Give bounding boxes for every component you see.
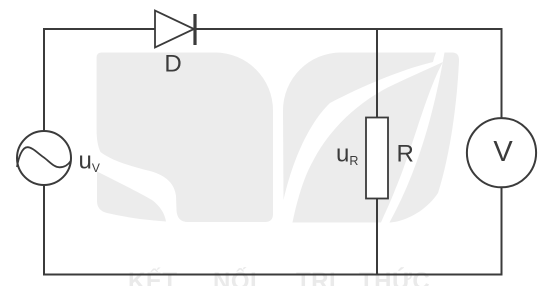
svg-text:uV: uV <box>79 147 100 175</box>
voltmeter V <box>467 118 536 187</box>
svg-text:TRI: TRI <box>296 268 336 286</box>
wire left lower <box>43 185 45 276</box>
wire bottom <box>43 274 503 276</box>
svg-text:NỐI: NỐI <box>213 267 257 286</box>
AC source uV <box>17 131 71 185</box>
svg-text:KẾT: KẾT <box>128 267 178 286</box>
diode D <box>155 11 197 48</box>
wire top right <box>196 28 502 30</box>
svg-text:R: R <box>397 140 414 167</box>
wire top left <box>44 28 155 30</box>
wire right upper <box>501 28 503 120</box>
svg-text:THỨC: THỨC <box>359 267 430 286</box>
wire left upper <box>43 28 45 132</box>
svg-text:V: V <box>493 136 513 168</box>
wire middle lower <box>376 198 378 275</box>
svg-text:D: D <box>164 51 181 78</box>
resistor R <box>366 118 388 199</box>
wire middle upper <box>376 28 378 118</box>
wire right lower <box>501 187 503 276</box>
